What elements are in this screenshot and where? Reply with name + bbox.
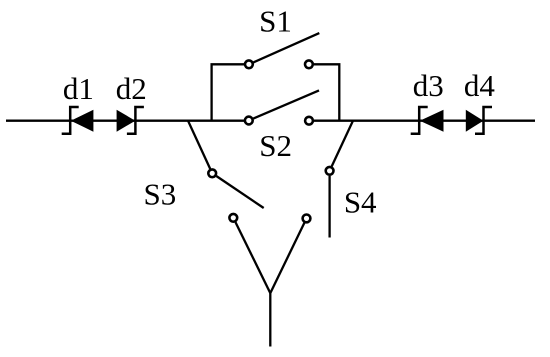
svg-text:S3: S3 — [144, 176, 177, 211]
switch S1 — [245, 33, 319, 68]
wire main left segment — [6, 120, 244, 122]
diode d4 — [466, 107, 492, 134]
switch S4 — [326, 167, 334, 238]
svg-text:d4: d4 — [464, 68, 496, 103]
wire S3 branch — [188, 121, 210, 169]
svg-text:d1: d1 — [63, 71, 94, 106]
wire S1 left bracket — [212, 64, 244, 120]
svg-text:d3: d3 — [413, 68, 444, 103]
switch S3 — [208, 169, 263, 208]
node Y right contact — [270, 215, 310, 294]
node Y left contact — [229, 214, 270, 293]
diode d1 — [62, 107, 94, 134]
switch S2 — [245, 90, 319, 124]
wire S1 right bracket — [314, 64, 340, 120]
diode d2 — [117, 107, 144, 134]
svg-text:d2: d2 — [116, 71, 147, 106]
wire output tail — [269, 292, 271, 347]
wire S4 branch — [332, 121, 353, 167]
diode d3 — [411, 107, 444, 134]
svg-text:S1: S1 — [259, 3, 292, 38]
svg-text:S2: S2 — [259, 128, 292, 163]
svg-text:S4: S4 — [344, 184, 377, 219]
wire main right segment — [314, 120, 535, 122]
